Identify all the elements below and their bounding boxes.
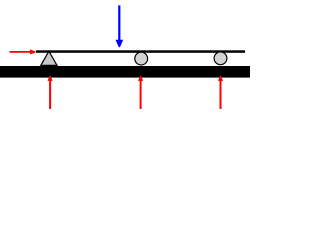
roller support right (circle) [214,52,227,65]
vertical reaction arrow right (red, upward) [218,76,223,109]
beam [36,50,245,53]
applied load arrow (blue, downward) [116,5,124,47]
horizontal reaction arrow (red, rightward) [10,49,36,54]
vertical reaction arrow middle (red, upward) [138,76,143,109]
pin support (triangle) [41,51,57,65]
vertical reaction arrow left (red, upward) [48,76,53,109]
roller support left (circle) [135,52,148,65]
ground bar [0,66,250,78]
